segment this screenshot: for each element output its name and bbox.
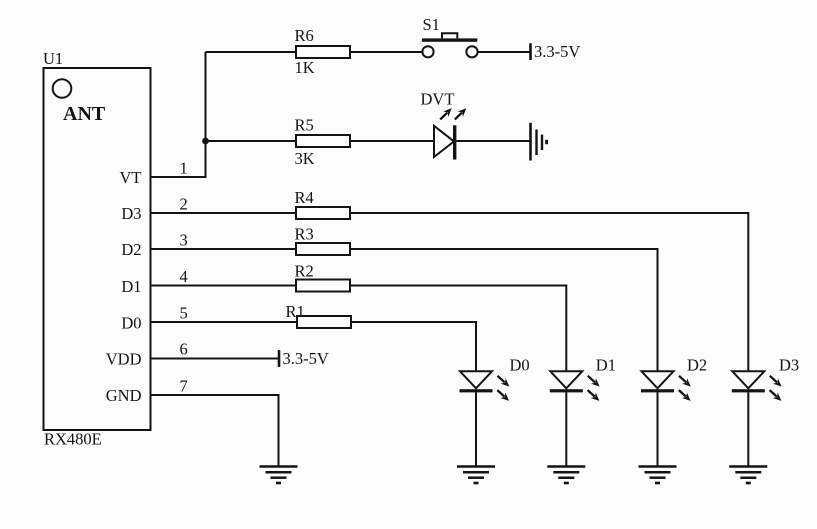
wire R5 to LED DVT [350, 140, 434, 142]
svg-text:DVT: DVT [421, 90, 455, 109]
wire LED D2 to ground [657, 392, 659, 466]
svg-text:5: 5 [180, 304, 188, 323]
LED D2 [641, 371, 693, 403]
svg-text:ANT: ANT [63, 103, 106, 125]
svg-text:3K: 3K [295, 149, 315, 168]
svg-text:VT: VT [120, 168, 142, 187]
svg-text:3.3-5V: 3.3-5V [283, 349, 329, 368]
power bar 3.3-5V (top) [529, 43, 532, 60]
ANT terminal circle [53, 79, 72, 98]
LED D1 [550, 371, 602, 403]
svg-text:1K: 1K [295, 58, 315, 77]
wire VT pin to bend [151, 52, 206, 177]
ground under LED D2 [639, 467, 677, 484]
svg-text:R5: R5 [295, 116, 314, 135]
wire LED D1 to ground [565, 392, 567, 466]
wire to R6 [206, 51, 297, 53]
svg-text:D0: D0 [121, 314, 141, 333]
resistor R1 [297, 316, 351, 328]
wire S1 to power [478, 51, 531, 53]
svg-text:D1: D1 [596, 356, 616, 375]
wire LED D0 to ground [475, 392, 477, 466]
resistor R2 [296, 280, 350, 292]
svg-text:GND: GND [106, 386, 142, 405]
wire D0 pin to R1 [151, 321, 298, 323]
switch S1 [422, 33, 478, 57]
svg-text:D2: D2 [121, 240, 141, 259]
wire DVT to ground [456, 140, 529, 142]
svg-text:6: 6 [180, 340, 188, 359]
svg-text:S1: S1 [423, 15, 440, 34]
svg-text:VDD: VDD [106, 350, 142, 369]
ground under LED D1 [547, 467, 585, 484]
svg-text:R6: R6 [295, 26, 314, 45]
svg-text:7: 7 [180, 377, 188, 396]
svg-text:3: 3 [180, 231, 188, 250]
wire VT junction to R5 [206, 140, 297, 142]
svg-text:D2: D2 [687, 356, 707, 375]
ground under LED D0 [457, 467, 495, 484]
svg-text:1: 1 [180, 159, 188, 178]
ground under LED D3 [729, 467, 767, 484]
ground (right-facing) after DVT [531, 123, 547, 161]
wire R3 to LED D2 [350, 249, 658, 371]
IC U1 body [44, 68, 151, 430]
resistor R6 [296, 46, 350, 58]
wire D2 pin to R3 [151, 248, 297, 250]
svg-text:D3: D3 [121, 204, 141, 223]
power bar 3.3-5V (VDD) [278, 350, 281, 367]
wire LED D3 to ground [747, 392, 749, 466]
junction dot node VT [202, 138, 209, 145]
resistor R5 [296, 135, 350, 147]
svg-text:4: 4 [180, 267, 188, 286]
wire R6 to S1 [350, 51, 422, 53]
svg-text:D0: D0 [510, 356, 530, 375]
ground at GND pin [260, 467, 298, 484]
wire GND pin to ground [151, 395, 279, 467]
svg-text:U1: U1 [43, 49, 63, 68]
wire R2 to LED D1 [350, 286, 566, 372]
svg-text:R4: R4 [295, 188, 314, 207]
svg-text:D3: D3 [779, 356, 799, 375]
svg-text:D1: D1 [121, 277, 141, 296]
svg-text:RX480E: RX480E [44, 430, 102, 449]
wire R1 to LED D0 [351, 322, 476, 371]
LED D0 [460, 371, 512, 403]
wire D1 pin to R2 [151, 285, 297, 287]
LED D3 [732, 371, 784, 403]
svg-text:3.3-5V: 3.3-5V [534, 42, 580, 61]
svg-text:R2: R2 [295, 262, 314, 281]
svg-text:R1: R1 [286, 302, 305, 321]
wire VDD pin to power [151, 358, 280, 360]
wire R4 to LED D3 [350, 213, 748, 371]
LED DVT [434, 106, 469, 160]
resistor R3 [296, 243, 350, 255]
wire D3 pin to R4 [151, 212, 297, 214]
svg-text:R3: R3 [295, 225, 314, 244]
resistor R4 [296, 207, 350, 219]
svg-text:2: 2 [180, 195, 188, 214]
